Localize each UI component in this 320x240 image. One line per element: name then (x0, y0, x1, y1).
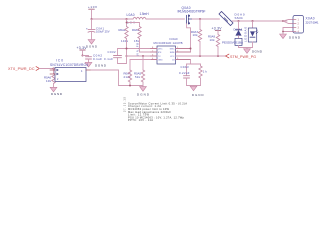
svg-text:+3.3V: +3.3V (212, 26, 223, 30)
junction at R0A7 (199, 55, 201, 57)
svg-text:SS34: SS34 (235, 16, 243, 20)
svg-text:0.1uF: 0.1uF (93, 57, 102, 61)
svg-text:L0A0: L0A0 (127, 13, 135, 17)
svg-text:GND: GND (158, 60, 163, 62)
svg-text:PESD5V0S1BA: PESD5V0S1BA (222, 41, 243, 45)
svg-text:22-27-2041: 22-27-2041 (306, 20, 319, 24)
svg-text:C032: C032 (108, 50, 116, 54)
svg-text:15k: 15k (134, 39, 140, 43)
svg-text:STM_PWR_PG: STM_PWR_PG (230, 55, 256, 59)
svg-text:10k: 10k (46, 79, 52, 83)
svg-text:VCC: VCC (170, 56, 175, 58)
inductor L0A0 (127, 12, 150, 19)
resistor R0A7 (191, 19, 202, 56)
svg-text:0.1uF: 0.1uF (104, 57, 113, 61)
junction at TVS drop (238, 20, 240, 22)
wire Q0A0 gate to IC0A0 pin (187, 24, 191, 52)
resistor R0A6 (44, 69, 55, 88)
resistor R0A9 (208, 34, 220, 56)
wire timing cap row (187, 60, 201, 65)
svg-text:XT0_PWR_DC: XT0_PWR_DC (8, 67, 35, 71)
svg-text:140k: 140k (121, 39, 129, 43)
svg-text:LED0A0: LED0A0 (244, 27, 248, 42)
svg-text:+3.3V: +3.3V (77, 46, 88, 50)
svg-text:DGND: DGND (289, 35, 301, 39)
junction at +3.3V node (82, 55, 84, 57)
wire C0A3/R0AA bottoms join (187, 85, 201, 87)
ground DGND of connector (280, 34, 301, 39)
svg-text:CII: CII (172, 60, 175, 62)
junction node FB at R0A5 (142, 55, 144, 57)
svg-text:C0A3: C0A3 (181, 65, 189, 69)
svg-text:IC0: IC0 (56, 58, 63, 62)
svg-text:51k: 51k (135, 75, 141, 79)
svg-text:SWC: SWC (170, 49, 175, 51)
capacitor C0A3 (179, 64, 190, 86)
LED LED0A0 (244, 21, 259, 48)
ground DGND of C0A1 (86, 40, 97, 49)
net label XT0_PWR_DC (8, 67, 39, 72)
junction at input divider (53, 68, 55, 70)
svg-text:100uF 25V: 100uF 25V (96, 30, 110, 34)
svg-text:IRLML6402GTRPbF: IRLML6402GTRPbF (178, 9, 206, 13)
svg-text:PPTC: 10V - 11A: PPTC: 10V - 11A (128, 118, 153, 122)
ground DGND of TVS/LED (244, 48, 263, 54)
buffer IC0 SN74LVC1G07 (50, 58, 91, 81)
wire rail VOUT right segment (232, 20, 287, 22)
ground DGND of R0A6 (50, 87, 63, 96)
svg-text:27.12.15: 27.12.15 (123, 96, 127, 112)
capacitor C0A1 100uF (86, 19, 110, 40)
wire divider bottoms join (119, 85, 144, 87)
connector X0A0 (282, 16, 319, 35)
capacitor C032 (104, 49, 127, 64)
svg-text:+10V: +10V (88, 5, 97, 9)
wire IC0 output to divider bottom (91, 70, 130, 86)
svg-text:10k: 10k (210, 38, 216, 42)
junction at feedback divider drop (199, 18, 201, 20)
wire XT0_PWR_DC to IC0 (39, 69, 55, 71)
resistor R0AA (199, 64, 208, 86)
ground DGND of C0A3 (190, 86, 203, 97)
wire TVS/LED ground join (239, 47, 253, 49)
svg-text:DRC: DRC (158, 49, 163, 51)
junction at R0A9 (217, 55, 219, 57)
power flag +3.3V (77, 46, 88, 56)
resistor R0A2 (119, 19, 151, 64)
junction node FB top (126, 48, 128, 50)
resistor R0A4 (124, 60, 151, 86)
svg-text:DGND: DGND (192, 93, 204, 97)
junction at divider bottom (129, 85, 131, 87)
svg-text:0.22uF: 0.22uF (179, 71, 190, 75)
ground DGND of C0A2 (85, 62, 107, 67)
ground DGND of divider (137, 86, 150, 97)
capacitor C0A2 0.1uF (86, 53, 103, 62)
svg-text:SN74LVC1G07DBVRG4: SN74LVC1G07DBVRG4 (50, 63, 88, 67)
svg-text:DGND: DGND (137, 92, 150, 96)
resistor R0A3 (126, 22, 151, 56)
wire PG net (176, 55, 226, 57)
svg-text:DGND: DGND (51, 92, 63, 96)
wire +10V down to rail (91, 9, 93, 19)
junction at gate drive pin (190, 48, 192, 50)
wire +3.3V to C0A2 (83, 55, 89, 58)
svg-text:TC: TC (158, 56, 161, 58)
svg-text:10k: 10k (193, 33, 199, 37)
svg-text:MC34063AD 1ACPB: MC34063AD 1ACPB (154, 41, 183, 45)
net label STM_PWR_PG (226, 54, 257, 59)
junction at power drop (91, 18, 93, 20)
junction at divider drop (126, 18, 128, 20)
power flag +10V (88, 5, 97, 9)
junction at connector split (282, 20, 284, 22)
svg-text:DGND: DGND (86, 44, 97, 48)
transistor Q0A0 IRLML6402 (178, 6, 206, 24)
junction C032 bottom on FB column (126, 55, 128, 57)
svg-text:1k: 1k (203, 70, 208, 74)
wire rail VIN left segment (92, 18, 220, 20)
svg-text:DGND: DGND (252, 50, 263, 54)
power flag +3.3V pullup (212, 26, 223, 34)
resistor R0A5 (134, 56, 145, 86)
junction at LED drop (252, 20, 254, 22)
diode D0A0 diagonal (219, 12, 245, 26)
svg-text:DGND: DGND (95, 63, 107, 67)
svg-text:R0A2: R0A2 (119, 28, 126, 32)
note text block (128, 101, 187, 122)
svg-text:SWE: SWE (170, 52, 175, 54)
IC IC0A0 MC34063 (151, 37, 191, 64)
diode D0A1 TVS PESD (222, 21, 243, 48)
svg-text:VIN_FB: VIN_FB (136, 43, 140, 56)
svg-text:1.5mH: 1.5mH (140, 12, 150, 16)
